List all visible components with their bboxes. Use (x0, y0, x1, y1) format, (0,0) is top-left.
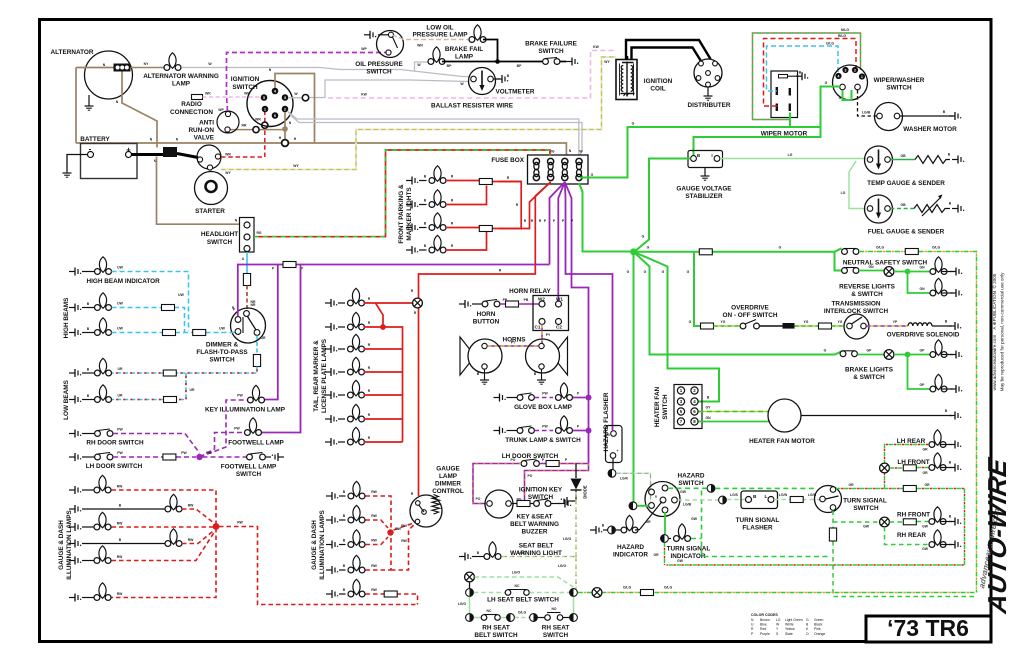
tail lamp 4 (325, 357, 371, 376)
svg-text:IGNITION: IGNITION (644, 78, 673, 85)
svg-text:FRONT PARKING &: FRONT PARKING & (398, 184, 405, 244)
alternator (51, 49, 133, 99)
wire UR dimmer to low beams (112, 336, 261, 403)
green stabilizer to junction (635, 159, 691, 252)
svg-text:RADIO: RADIO (181, 101, 202, 108)
svg-text:G: G (806, 618, 809, 622)
hazard switch to turn signal indicator green (664, 513, 666, 535)
green U-link under wiper switch (839, 90, 852, 100)
brake lights wiring (894, 349, 933, 390)
wiper/washer switch (833, 65, 925, 100)
ignition switch (231, 76, 299, 127)
tail rear marker license plate lamps label (313, 338, 328, 413)
dash lamp L2 (69, 494, 194, 513)
svg-text:Slate: Slate (785, 632, 793, 636)
svg-text:GAUGE & DASH: GAUGE & DASH (311, 520, 318, 570)
svg-text:YG: YG (838, 320, 843, 324)
svg-text:LG: LG (776, 618, 781, 622)
svg-text:RH SEAT: RH SEAT (542, 625, 570, 632)
svg-text:HEATER FAN: HEATER FAN (654, 386, 661, 427)
svg-text:RW: RW (371, 564, 377, 568)
svg-text:RW: RW (117, 522, 123, 526)
svg-text:Purple: Purple (760, 632, 770, 636)
svg-text:TRUNK LAMP & SWITCH: TRUNK LAMP & SWITCH (505, 437, 581, 444)
svg-text:HEATER FAN MOTOR: HEATER FAN MOTOR (749, 438, 815, 445)
svg-text:NO: NO (551, 607, 556, 611)
svg-text:WP: WP (218, 108, 224, 112)
svg-text:& SWITCH: & SWITCH (851, 291, 883, 298)
wire U headlight to dimmer fuse (242, 252, 256, 311)
wire W warning lamp to ignition switch area (181, 62, 470, 98)
svg-text:GW: GW (691, 517, 698, 521)
wire GR lh lamps vertical (885, 445, 930, 489)
svg-text:KW: KW (361, 93, 367, 97)
dash lamp R5 (326, 579, 378, 598)
lh door switch (69, 451, 143, 470)
svg-text:GP: GP (920, 383, 926, 387)
battery cable black (132, 153, 164, 156)
brake lamp switch symbol (884, 350, 894, 360)
dash lamp R1 (326, 481, 378, 500)
svg-text:BRAKE FAIL: BRAKE FAIL (445, 46, 483, 53)
svg-text:HAZARD FLASHER: HAZARD FLASHER (603, 392, 610, 451)
svg-text:LG/O: LG/O (458, 602, 467, 606)
red fan fuse2 to parking lamps (499, 182, 551, 229)
svg-text:BELT SWITCH: BELT SWITCH (474, 632, 518, 639)
footwell lamp (228, 418, 284, 447)
svg-text:TEMP GAUGE & SENDER: TEMP GAUGE & SENDER (867, 180, 945, 187)
svg-text:FUEL GAUGE & SENDER: FUEL GAUGE & SENDER (868, 229, 945, 236)
low beams label (63, 379, 70, 419)
turn signal switch (815, 483, 887, 513)
reverse lamp switch symbol (884, 267, 894, 277)
wire GR lh front (890, 465, 930, 475)
svg-text:U/LG: U/LG (826, 42, 834, 46)
svg-text:GAUGE VOLTAGE: GAUGE VOLTAGE (676, 186, 732, 193)
svg-text:BRAKE LIGHTS: BRAKE LIGHTS (845, 367, 894, 374)
alternator ground (85, 95, 94, 110)
svg-text:BP: BP (447, 64, 452, 68)
svg-text:WARNING LIGHT: WARNING LIGHT (510, 550, 562, 557)
green diag to brake lights (634, 252, 843, 355)
svg-text:LAMP: LAMP (455, 54, 474, 61)
svg-text:VALVE: VALVE (194, 135, 215, 142)
svg-text:GY: GY (706, 406, 712, 410)
svg-text:RW: RW (371, 514, 377, 518)
svg-text:SWITCH: SWITCH (236, 471, 262, 478)
wire WR red dashed ignition to solenoid (221, 112, 268, 157)
svg-text:LH FRONT: LH FRONT (897, 459, 929, 466)
green feed bullet to hazard switch (629, 502, 648, 510)
svg-text:YG: YG (721, 320, 726, 324)
svg-text:FOOTWELL LAMP: FOOTWELL LAMP (221, 464, 277, 471)
svg-text:SWITCH: SWITCH (662, 394, 669, 420)
voltmeter (460, 68, 534, 96)
neutral safety switch (842, 249, 928, 267)
svg-text:C2: C2 (556, 325, 562, 330)
svg-text:NEUTRAL SAFETY SWITCH: NEUTRAL SAFETY SWITCH (843, 260, 928, 267)
rh front lamp (897, 507, 961, 526)
svg-text:LH REAR: LH REAR (897, 438, 926, 445)
svg-text:LOW OIL: LOW OIL (426, 25, 453, 32)
alternator warning lamp (143, 53, 219, 88)
hazard flasher to LG/K bullet (612, 459, 614, 470)
svg-text:NC: NC (515, 584, 520, 588)
svg-text:DIODE: DIODE (583, 485, 588, 498)
svg-text:4: 4 (838, 74, 840, 78)
svg-text:SWITCH: SWITCH (209, 357, 235, 364)
key illumination lamp (205, 385, 286, 413)
svg-text:INDICATOR: INDICATOR (671, 553, 706, 560)
headlight switch (201, 218, 254, 253)
svg-text:WY: WY (604, 60, 610, 64)
svg-text:Orange: Orange (814, 632, 825, 636)
svg-text:3: 3 (284, 96, 286, 100)
svg-text:4: 4 (274, 89, 276, 93)
lh front lamp (897, 453, 961, 472)
svg-text:UR: UR (190, 388, 195, 392)
svg-text:LG/O: LG/O (563, 537, 572, 541)
svg-text:PW: PW (206, 451, 212, 455)
svg-text:UR: UR (118, 394, 123, 398)
purple fan fuse3 wire B to horn relay W1 (553, 182, 565, 301)
svg-text:PO: PO (528, 474, 533, 478)
high beam indicator (69, 257, 160, 285)
svg-text:BATTERY: BATTERY (80, 136, 110, 143)
reverse lamp 1 (930, 257, 962, 276)
svg-text:G: G (687, 270, 690, 274)
svg-text:WK: WK (244, 92, 250, 96)
svg-text:NR: NR (251, 303, 256, 307)
svg-text:G: G (647, 246, 650, 250)
wire LG/O diode to seat belts (502, 492, 576, 589)
svg-text:TURN SIGNAL: TURN SIGNAL (667, 546, 711, 553)
svg-text:Light Green: Light Green (785, 618, 803, 622)
svg-text:RW: RW (401, 524, 407, 528)
svg-text:RH DOOR SWITCH: RH DOOR SWITCH (86, 440, 144, 447)
svg-text:SWITCH: SWITCH (232, 84, 258, 91)
svg-text:6: 6 (274, 114, 276, 118)
svg-text:ANTI: ANTI (199, 120, 214, 127)
dash lamp L4 (69, 529, 194, 548)
svg-text:W1: W1 (556, 297, 563, 302)
svg-text:G: G (662, 270, 665, 274)
wire GW rh rear (885, 527, 930, 551)
wire GW turn switch to rh lamps (829, 511, 975, 597)
purple fan fuse3 wire C to hazard flasher (562, 182, 613, 430)
svg-text:GN: GN (868, 265, 874, 269)
svg-text:WIPER/WASHER: WIPER/WASHER (874, 77, 925, 84)
low oil pressure lamp (412, 25, 486, 43)
tail lamp 3 (325, 334, 371, 353)
svg-text:HAZARD: HAZARD (617, 544, 644, 551)
svg-text:G: G (642, 235, 645, 239)
high beams label (63, 297, 70, 339)
svg-text:PW: PW (181, 451, 187, 455)
svg-text:O/LG: O/LG (876, 246, 885, 250)
svg-text:ALTERNATOR: ALTERNATOR (51, 49, 94, 56)
svg-text:RW: RW (371, 588, 377, 592)
svg-text:GW: GW (863, 525, 870, 529)
svg-text:GW: GW (680, 490, 687, 494)
svg-text:PB: PB (503, 298, 508, 302)
svg-text:HEADLIGHT: HEADLIGHT (201, 231, 238, 238)
svg-text:LG: LG (841, 191, 846, 195)
fuse box (491, 150, 593, 185)
title box (866, 615, 991, 642)
svg-text:CONNECTION: CONNECTION (170, 109, 213, 116)
svg-text:PW: PW (542, 425, 548, 429)
svg-text:GAUGE & DASH: GAUGE & DASH (58, 520, 65, 570)
svg-text:R/LG: R/LG (838, 34, 846, 38)
low beam lamp 1 (69, 358, 112, 377)
anti run-on valve (188, 108, 239, 142)
overdrive on-off switch (701, 305, 778, 330)
dash lamp R4 (326, 555, 378, 574)
coil HT leads black (626, 40, 714, 64)
svg-text:LG/B: LG/B (862, 111, 871, 115)
horn relay (509, 288, 568, 331)
svg-text:LG/S: LG/S (730, 493, 739, 497)
svg-text:IGNITION KEY: IGNITION KEY (519, 487, 563, 494)
low beam lamp 2 (69, 385, 112, 404)
svg-text:LG/K: LG/K (620, 477, 629, 481)
svg-text:GR: GR (924, 483, 930, 487)
svg-text:LG/O: LG/O (558, 564, 567, 568)
wire GR indicator down to loop (664, 543, 666, 565)
svg-text:UW: UW (219, 327, 225, 331)
svg-text:HAZARD: HAZARD (678, 473, 705, 480)
svg-text:AUTO-WIRE: AUTO-WIRE (982, 455, 1012, 616)
wiper nest wire R/LG (764, 34, 857, 108)
svg-text:GB: GB (900, 154, 906, 158)
wire W pin3 to ring terminal (288, 95, 309, 101)
oil pressure switch feed (364, 31, 388, 39)
distributer (688, 59, 731, 109)
overdrive wiring to interlock (760, 320, 845, 329)
main green bus fusebox-wiper (580, 81, 840, 178)
wire KW ballast resister wire (328, 45, 616, 110)
brake fail lamp (428, 46, 483, 64)
svg-text:RW: RW (371, 539, 377, 543)
svg-text:SEAT BELT: SEAT BELT (519, 543, 554, 550)
wire N brown bus to fuse box (76, 138, 572, 156)
svg-text:TURN SIGNAL: TURN SIGNAL (736, 517, 780, 524)
wire PY relay to horns (488, 325, 551, 347)
svg-text:KW: KW (593, 45, 599, 49)
wire RW right dash group (366, 496, 418, 605)
svg-text:GW: GW (922, 547, 929, 551)
svg-text:& SWITCH: & SWITCH (853, 374, 885, 381)
svg-text:YP: YP (893, 320, 898, 324)
svg-text:Pink: Pink (814, 627, 821, 631)
battery (80, 136, 137, 179)
svg-text:1: 1 (861, 75, 863, 79)
svg-text:GB: GB (900, 203, 906, 207)
svg-text:GLOVE BOX LAMP: GLOVE BOX LAMP (514, 404, 573, 411)
svg-text:2: 2 (854, 68, 856, 72)
transmission interlock switch (824, 301, 889, 340)
svg-text:HORN: HORN (477, 311, 496, 318)
svg-text:TRANSMISSION: TRANSMISSION (832, 301, 881, 308)
svg-text:WY: WY (293, 164, 299, 168)
svg-text:G: G (591, 173, 594, 177)
svg-text:www.advanceautowire.com A ⊕: www.advanceautowire.com A ⊕PUBLICATION ©… (991, 273, 997, 390)
wire PO door to key switch (473, 461, 589, 504)
parking lamp 1 (406, 166, 454, 185)
svg-text:GR: GR (922, 448, 928, 452)
svg-text:COIL: COIL (650, 86, 665, 93)
junction block (154, 147, 177, 163)
dash lamp L5 (69, 546, 123, 565)
wire LG/S bullet to flasher (727, 493, 745, 500)
svg-text:L: L (765, 494, 768, 500)
parking lamp 3 (406, 213, 454, 232)
wire B lamps to brake failure switch (442, 40, 566, 69)
parking lamp 4 (406, 235, 454, 254)
svg-text:O/LG: O/LG (623, 586, 632, 590)
radio connection (170, 95, 213, 117)
lh front lamp switch symbol (880, 463, 890, 473)
reverse lights & switch (835, 252, 896, 298)
svg-text:SWITCH: SWITCH (886, 85, 912, 92)
svg-text:PY: PY (546, 333, 551, 337)
gauge & dash illumination lamps label (right) (311, 510, 326, 580)
svg-text:CONTROL: CONTROL (432, 488, 464, 495)
svg-text:GR: GR (848, 483, 854, 487)
svg-text:REVERSE LIGHTS: REVERSE LIGHTS (839, 284, 895, 291)
brake lamp 1 (930, 340, 962, 359)
svg-text:G: G (689, 320, 692, 324)
wire RW left dash group (112, 490, 418, 605)
svg-text:RW: RW (117, 485, 123, 489)
svg-text:FLASHER: FLASHER (742, 525, 773, 532)
turn signal flasher (736, 491, 780, 532)
wire UW hb1 (112, 302, 185, 333)
seat belt warning light (459, 542, 562, 561)
svg-text:WP: WP (361, 47, 367, 51)
tail lamp 5 (325, 380, 371, 399)
svg-text:G: G (632, 122, 635, 126)
svg-text:UW: UW (117, 266, 123, 270)
svg-text:LOW BEAMS: LOW BEAMS (63, 379, 70, 419)
svg-text:WASHER MOTOR: WASHER MOTOR (903, 126, 957, 133)
front parking & marker lights label (398, 184, 413, 244)
svg-text:RG: RG (256, 231, 261, 235)
lh door switch (buzzer) (502, 453, 568, 466)
rh door switch (69, 428, 144, 447)
svg-text:N/LG: N/LG (841, 28, 849, 32)
wire GW bullet down to rh lamps feed (691, 488, 830, 556)
wire W ignition pins to fuse box (287, 111, 583, 155)
svg-text:WR: WR (255, 118, 261, 122)
wire GY heater switch to motor (699, 406, 770, 412)
svg-text:GR: GR (645, 520, 651, 524)
gauge voltage stabilizer (676, 151, 732, 201)
panel lamp junction symbol (413, 298, 423, 315)
svg-text:SWITCH: SWITCH (207, 239, 233, 246)
AUTO-WIRE logo (977, 455, 1012, 616)
ignition key switch (485, 487, 563, 519)
green feed fusebox down to junction (579, 183, 634, 252)
svg-text:RW: RW (401, 539, 407, 543)
svg-text:NY: NY (144, 62, 149, 66)
svg-text:RH SEAT: RH SEAT (482, 625, 510, 632)
wire PW door switch net (113, 400, 247, 460)
svg-text:ALTERNATOR WARNING: ALTERNATOR WARNING (143, 73, 219, 80)
svg-text:O/LG: O/LG (518, 611, 527, 615)
svg-text:LG/N: LG/N (779, 493, 788, 497)
svg-text:G: G (824, 349, 827, 353)
svg-text:GN: GN (705, 416, 711, 420)
svg-text:KEY ILLUMINATION LAMP: KEY ILLUMINATION LAMP (205, 407, 286, 414)
svg-text:Blue: Blue (760, 623, 767, 627)
wire GW rh front (890, 519, 930, 529)
wire LG/N flasher to switch (774, 493, 820, 503)
tail lamp 2 (325, 312, 371, 331)
svg-text:B: B (753, 494, 757, 500)
svg-text:UR: UR (118, 367, 123, 371)
svg-text:LAMP: LAMP (439, 473, 458, 480)
TRUNK LAMP &amp; SWITCH (494, 416, 592, 444)
svg-text:UR: UR (261, 336, 266, 340)
dimmer & flash-to-pass switch (196, 303, 266, 364)
svg-text:WN: WN (417, 44, 423, 48)
wire GR turn switch loop (667, 483, 965, 565)
green overdrive feed (687, 252, 700, 326)
brake lights switch (840, 349, 894, 382)
dash lamp L3 (69, 512, 123, 531)
lh seat belt switch row (458, 584, 578, 606)
headlight switch feed brown (157, 157, 240, 225)
svg-text:Black: Black (814, 623, 823, 627)
svg-text:HIGH BEAMS: HIGH BEAMS (63, 297, 70, 339)
brake failure switch (525, 41, 578, 66)
svg-text:HORN RELAY: HORN RELAY (509, 288, 551, 295)
reverse lamp 2 (930, 278, 962, 297)
wire WY starter to coil (221, 57, 616, 170)
svg-text:1: 1 (264, 107, 266, 111)
wire LG/B washer switch to motor (858, 90, 877, 116)
svg-text:STARTER: STARTER (195, 208, 225, 215)
wire LG/K to hazard switch (616, 473, 650, 503)
svg-text:PB: PB (524, 298, 529, 302)
svg-text:WY: WY (225, 171, 231, 175)
svg-text:GN: GN (919, 266, 925, 270)
svg-text:GN: GN (919, 287, 925, 291)
footwell lamp switch (221, 453, 284, 479)
svg-text:GW: GW (677, 559, 684, 563)
wire WP purple dashed valve to oil pressure switch (227, 47, 387, 111)
red fan fuse2 to dash lamp feed (411, 182, 551, 496)
hazard indicator (590, 515, 651, 558)
svg-text:RW: RW (395, 527, 401, 531)
svg-text:May be reproduced for personal: May be reproduced for personal, non-comm… (1000, 272, 1005, 391)
svg-text:‘73 TR6: ‘73 TR6 (887, 615, 969, 641)
gauge & dash illumination lamps label (left) (58, 510, 73, 580)
green bus junction to neutral safety switch (634, 246, 842, 255)
svg-text:LG/B: LG/B (683, 503, 692, 507)
wiper nest wire N/LG (753, 28, 861, 120)
horn button (459, 298, 539, 326)
svg-text:RH REAR: RH REAR (897, 532, 926, 539)
svg-text:RH FRONT: RH FRONT (897, 512, 930, 519)
fuel gauge & sender (865, 195, 965, 236)
svg-text:PO: PO (511, 458, 516, 462)
svg-text:O/LG: O/LG (664, 586, 673, 590)
svg-text:BELT WARNING: BELT WARNING (510, 521, 559, 528)
tail lamp 6 (325, 404, 371, 423)
